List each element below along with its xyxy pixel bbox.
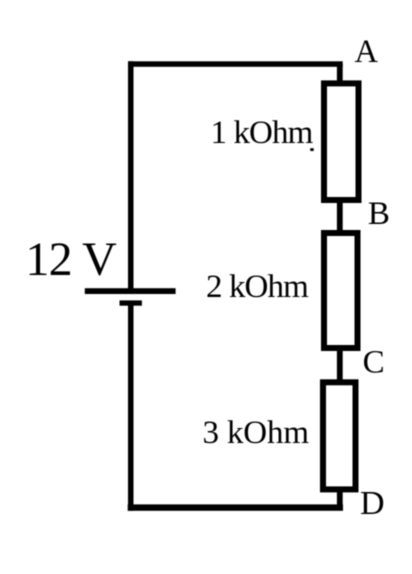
svg-text:12 V: 12 V <box>25 233 117 286</box>
wire left vertical lower <box>128 301 134 511</box>
battery V1 short plate <box>120 300 142 305</box>
resistor R3 <box>323 382 356 489</box>
svg-text:3 kOhm: 3 kOhm <box>203 415 310 451</box>
resistor R1 <box>324 83 359 200</box>
wire stub node B <box>337 200 343 232</box>
svg-text:D: D <box>360 485 385 522</box>
stray dot <box>310 148 314 151</box>
wire stub node D <box>337 489 343 508</box>
svg-text:B: B <box>368 196 390 232</box>
battery V1 long plate <box>85 288 176 294</box>
svg-text:1 kOhm: 1 kOhm <box>211 115 314 151</box>
svg-text:A: A <box>355 34 379 70</box>
wire left vertical upper <box>128 61 134 294</box>
svg-text:2 kOhm: 2 kOhm <box>206 269 309 305</box>
wire stub node A <box>337 64 343 83</box>
svg-text:C: C <box>363 344 385 380</box>
wire top horizontal <box>128 61 343 67</box>
wire bottom horizontal <box>128 504 343 510</box>
wire stub node C <box>337 348 343 382</box>
resistor R2 <box>324 233 358 348</box>
